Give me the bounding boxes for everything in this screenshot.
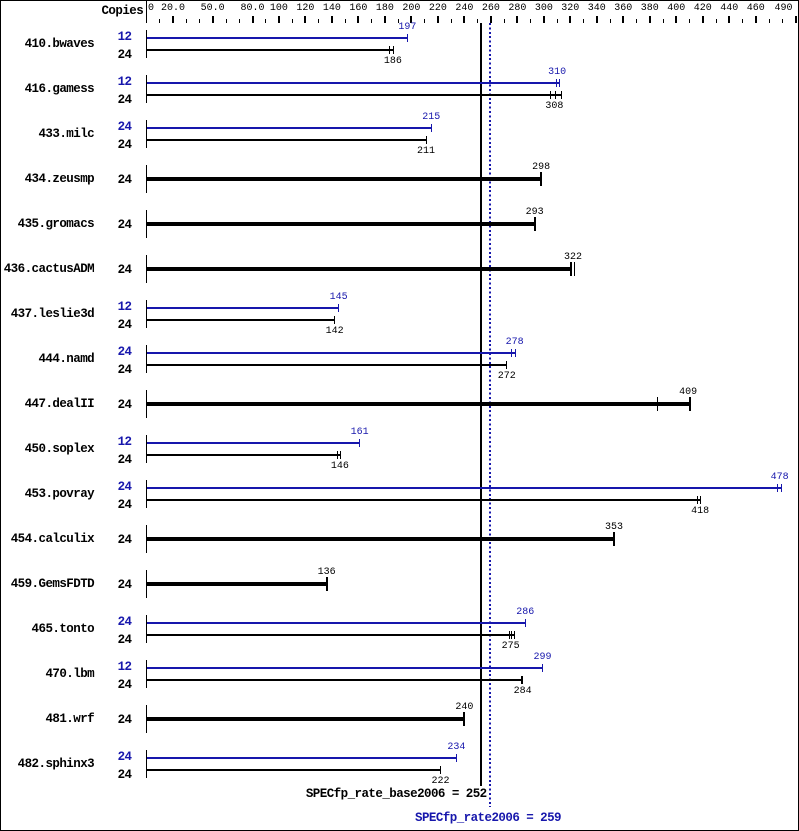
benchmark name 454.calculix [0, 533, 94, 545]
444.namd peak bar (278) [147, 352, 515, 354]
447.dealII copies 24 [102, 399, 132, 411]
axis label 160 [343, 4, 373, 14]
444.namd base run tick 1 [506, 361, 507, 369]
benchmark name 447.dealII [0, 398, 94, 410]
465.tonto peak copies 24 [102, 616, 132, 628]
major tick 260 [490, 16, 492, 23]
453.povray base run tick 1 [697, 496, 698, 504]
470.lbm peak bar (299) [147, 667, 543, 669]
410.bwaves baseline tick [146, 30, 147, 58]
minor tick 410 [689, 19, 690, 23]
447.dealII run tick 2 [689, 397, 691, 411]
axis label 420 [688, 4, 718, 14]
axis label 80.0 [238, 4, 268, 14]
450.soplex peak run tick 1 [359, 439, 360, 447]
minor tick 60 [226, 19, 227, 23]
410.bwaves peak bar (197) [147, 37, 407, 39]
benchmark name 481.wrf [0, 713, 94, 725]
major tick 490 [795, 16, 797, 23]
minor tick 310 [557, 19, 558, 23]
410.bwaves base bar (186) [147, 49, 394, 51]
450.soplex peak bar (161) [147, 442, 360, 444]
447.dealII bar (409) [147, 402, 691, 406]
435.gromacs copies 24 [102, 219, 132, 231]
axis label 200 [396, 4, 426, 14]
major tick 20 [172, 16, 174, 23]
major tick 100 [278, 16, 280, 23]
axis label 240 [449, 4, 479, 14]
465.tonto base copies 24 [102, 634, 132, 646]
axis label 460 [741, 4, 771, 14]
minor tick 470 [769, 19, 770, 23]
base mean annotation [227, 788, 487, 800]
416.gamess peak run tick 2 [559, 79, 560, 87]
major tick 340 [596, 16, 598, 23]
axis label 180 [370, 4, 400, 14]
437.leslie3d peak copies 12 [102, 301, 132, 313]
481.wrf baseline tick [146, 705, 147, 733]
450.soplex base copies 24 [102, 454, 132, 466]
axis label 300 [529, 4, 559, 14]
436.cactusADM run tick 2 [574, 262, 576, 276]
454.calculix copies 24 [102, 534, 132, 546]
454.calculix baseline tick [146, 525, 147, 553]
axis label 0 [145, 4, 157, 14]
minor tick 330 [583, 19, 584, 23]
major tick 380 [649, 16, 651, 23]
459.GemsFDTD baseline tick [146, 570, 147, 598]
453.povray peak value label 478 [750, 473, 799, 483]
minor tick 250 [477, 19, 478, 23]
major tick 300 [543, 16, 545, 23]
450.soplex base run tick 1 [337, 451, 338, 459]
433.milc base bar (211) [147, 139, 426, 141]
450.soplex base run tick 2 [340, 451, 341, 459]
481.wrf value label 240 [434, 703, 494, 713]
453.povray peak copies 24 [102, 481, 132, 493]
minor tick 270 [504, 19, 505, 23]
axis label 490 [763, 4, 793, 14]
453.povray base copies 24 [102, 499, 132, 511]
453.povray base bar (418) [147, 499, 700, 501]
benchmark name 434.zeusmp [0, 173, 94, 185]
482.sphinx3 peak run tick 1 [456, 754, 457, 762]
axis label 100 [264, 4, 294, 14]
benchmark name 450.soplex [0, 443, 94, 455]
major tick 180 [384, 16, 386, 23]
465.tonto peak run tick 1 [525, 619, 526, 627]
416.gamess peak copies 12 [102, 76, 132, 88]
450.soplex peak copies 12 [102, 436, 132, 448]
410.bwaves peak value label 197 [377, 23, 437, 33]
Copies header [63, 5, 143, 17]
433.milc base copies 24 [102, 139, 132, 151]
450.soplex base bar (146) [147, 454, 340, 456]
416.gamess base bar (308) [147, 94, 561, 96]
437.leslie3d base bar (142) [147, 319, 335, 321]
437.leslie3d base run tick 1 [334, 316, 335, 324]
benchmark name 465.tonto [0, 623, 94, 635]
benchmark name 459.GemsFDTD [0, 578, 94, 590]
435.gromacs run tick 1 [534, 217, 536, 231]
axis label 380 [635, 4, 665, 14]
437.leslie3d peak value label 145 [309, 293, 369, 303]
axis label 360 [608, 4, 638, 14]
470.lbm base copies 24 [102, 679, 132, 691]
minor tick 210 [424, 19, 425, 23]
481.wrf run tick 1 [463, 712, 465, 726]
459.GemsFDTD copies 24 [102, 579, 132, 591]
465.tonto base bar (275) [147, 634, 515, 636]
major tick 50 [212, 16, 214, 23]
minor tick 450 [742, 19, 743, 23]
major tick 80 [252, 16, 254, 23]
axis label 340 [582, 4, 612, 14]
470.lbm peak copies 12 [102, 661, 132, 673]
minor tick 150 [345, 19, 346, 23]
minor tick 30 [186, 19, 187, 23]
SPECfp_rate_base2006 reference line (252) [480, 23, 482, 786]
436.cactusADM baseline tick [146, 255, 147, 283]
436.cactusADM run tick 1 [570, 262, 572, 276]
minor tick 430 [716, 19, 717, 23]
470.lbm baseline tick [146, 660, 147, 688]
482.sphinx3 base copies 24 [102, 769, 132, 781]
433.milc baseline tick [146, 120, 147, 148]
450.soplex peak value label 161 [330, 428, 390, 438]
minor tick 370 [636, 19, 637, 23]
major tick 460 [755, 16, 757, 23]
major tick 320 [569, 16, 571, 23]
450.soplex base value label 146 [310, 462, 370, 472]
major tick 120 [304, 16, 306, 23]
433.milc base value label 211 [396, 147, 456, 157]
433.milc peak value label 215 [401, 113, 461, 123]
major tick 140 [331, 16, 333, 23]
benchmark name 453.povray [0, 488, 94, 500]
435.gromacs bar (293) [147, 222, 536, 226]
benchmark name 433.milc [0, 128, 94, 140]
447.dealII value label 409 [658, 388, 718, 398]
major tick 200 [410, 16, 412, 23]
410.bwaves base value label 186 [363, 57, 423, 67]
459.GemsFDTD value label 136 [297, 568, 357, 578]
437.leslie3d base value label 142 [305, 327, 365, 337]
minor tick 40 [199, 19, 200, 23]
416.gamess base value label 308 [524, 102, 584, 112]
437.leslie3d peak run tick 1 [338, 304, 339, 312]
major tick 280 [516, 16, 518, 23]
470.lbm base run tick 1 [521, 676, 524, 684]
axis spine [146, 1, 147, 23]
minor tick 130 [318, 19, 319, 23]
459.GemsFDTD run tick 1 [326, 577, 328, 591]
470.lbm peak value label 299 [513, 653, 573, 663]
434.zeusmp copies 24 [102, 174, 132, 186]
benchmark name 444.namd [0, 353, 94, 365]
437.leslie3d base copies 24 [102, 319, 132, 331]
444.namd peak copies 24 [102, 346, 132, 358]
axis label 400 [661, 4, 691, 14]
454.calculix value label 353 [584, 523, 644, 533]
benchmark name 435.gromacs [0, 218, 94, 230]
453.povray base run tick 2 [700, 496, 701, 504]
482.sphinx3 base run tick 1 [440, 766, 441, 774]
minor tick 230 [451, 19, 452, 23]
470.lbm peak run tick 1 [542, 664, 543, 672]
482.sphinx3 base value label 222 [411, 777, 471, 787]
major tick 160 [357, 16, 359, 23]
481.wrf copies 24 [102, 714, 132, 726]
410.bwaves base run tick 2 [393, 46, 394, 54]
434.zeusmp bar (298) [147, 177, 542, 181]
444.namd base copies 24 [102, 364, 132, 376]
444.namd base bar (272) [147, 364, 507, 366]
axis label 220 [423, 4, 453, 14]
minor tick 170 [371, 19, 372, 23]
benchmark name 410.bwaves [0, 38, 94, 50]
454.calculix run tick 1 [613, 532, 615, 546]
minor tick 110 [292, 19, 293, 23]
axis label 50.0 [198, 4, 228, 14]
436.cactusADM value label 322 [543, 253, 603, 263]
482.sphinx3 peak copies 24 [102, 751, 132, 763]
435.gromacs baseline tick [146, 210, 147, 238]
benchmark name 482.sphinx3 [0, 758, 94, 770]
minor tick 350 [610, 19, 611, 23]
axis label 140 [317, 4, 347, 14]
444.namd baseline tick [146, 345, 147, 373]
465.tonto base run tick 3 [514, 631, 515, 639]
416.gamess peak run tick 1 [556, 79, 557, 87]
447.dealII run tick 1 [657, 397, 658, 411]
433.milc base run tick 1 [426, 136, 427, 144]
major tick 400 [675, 16, 677, 23]
453.povray peak bar (478) [147, 487, 782, 489]
453.povray baseline tick [146, 480, 147, 508]
482.sphinx3 baseline tick [146, 750, 147, 778]
axis label 120 [290, 4, 320, 14]
465.tonto peak value label 286 [495, 608, 555, 618]
444.namd peak run tick 1 [511, 349, 512, 357]
435.gromacs value label 293 [505, 208, 565, 218]
450.soplex baseline tick [146, 435, 147, 463]
minor tick 190 [398, 19, 399, 23]
482.sphinx3 peak value label 234 [426, 743, 486, 753]
416.gamess base run tick 3 [561, 91, 562, 99]
416.gamess baseline tick [146, 75, 147, 103]
453.povray peak run tick 2 [781, 484, 782, 492]
axis label 20.0 [158, 4, 188, 14]
benchmark name 416.gamess [0, 83, 94, 95]
axis label 440 [714, 4, 744, 14]
416.gamess base run tick 1 [550, 91, 551, 99]
454.calculix bar (353) [147, 537, 615, 541]
axis label 320 [555, 4, 585, 14]
437.leslie3d baseline tick [146, 300, 147, 328]
minor tick 390 [663, 19, 664, 23]
482.sphinx3 peak bar (234) [147, 757, 456, 759]
major tick 240 [463, 16, 465, 23]
470.lbm base bar (284) [147, 679, 523, 681]
benchmark name 470.lbm [0, 668, 94, 680]
465.tonto base run tick 1 [509, 631, 510, 639]
465.tonto baseline tick [146, 615, 147, 643]
465.tonto base run tick 2 [511, 631, 512, 639]
447.dealII baseline tick [146, 390, 147, 418]
416.gamess peak value label 310 [527, 68, 587, 78]
410.bwaves peak copies 12 [102, 31, 132, 43]
436.cactusADM copies 24 [102, 264, 132, 276]
410.bwaves peak run tick 1 [407, 34, 408, 42]
axis label 280 [502, 4, 532, 14]
465.tonto peak bar (286) [147, 622, 525, 624]
436.cactusADM bar (322) [147, 267, 572, 271]
minor tick 70 [239, 19, 240, 23]
433.milc peak bar (215) [147, 127, 431, 129]
major tick 440 [728, 16, 730, 23]
410.bwaves base run tick 1 [389, 46, 390, 54]
444.namd peak value label 278 [485, 338, 545, 348]
minor tick 90 [265, 19, 266, 23]
434.zeusmp run tick 1 [540, 172, 542, 186]
axis label 260 [476, 4, 506, 14]
481.wrf bar (240) [147, 717, 465, 721]
470.lbm base value label 284 [493, 687, 553, 697]
minor tick 480 [782, 19, 783, 23]
major tick 220 [437, 16, 439, 23]
444.namd base value label 272 [477, 372, 537, 382]
416.gamess base copies 24 [102, 94, 132, 106]
434.zeusmp baseline tick [146, 165, 147, 193]
major tick 420 [702, 16, 704, 23]
465.tonto base value label 275 [481, 642, 541, 652]
434.zeusmp value label 298 [511, 163, 571, 173]
peak mean annotation [415, 812, 561, 824]
416.gamess peak bar (310) [147, 82, 560, 84]
SPECfp_rate2006 reference line (259, blue dotted) [489, 23, 491, 807]
benchmark name 437.leslie3d [0, 308, 94, 320]
459.GemsFDTD bar (136) [147, 582, 328, 586]
minor tick 290 [530, 19, 531, 23]
437.leslie3d peak bar (145) [147, 307, 339, 309]
major tick 360 [622, 16, 624, 23]
benchmark name 436.cactusADM [0, 263, 94, 275]
482.sphinx3 base bar (222) [147, 769, 441, 771]
410.bwaves base copies 24 [102, 49, 132, 61]
453.povray base value label 418 [670, 507, 730, 517]
453.povray peak run tick 1 [777, 484, 778, 492]
433.milc peak run tick 1 [431, 124, 432, 132]
433.milc peak copies 24 [102, 121, 132, 133]
minor tick 10 [159, 19, 160, 23]
416.gamess base run tick 2 [555, 91, 556, 99]
444.namd peak run tick 2 [515, 349, 516, 357]
